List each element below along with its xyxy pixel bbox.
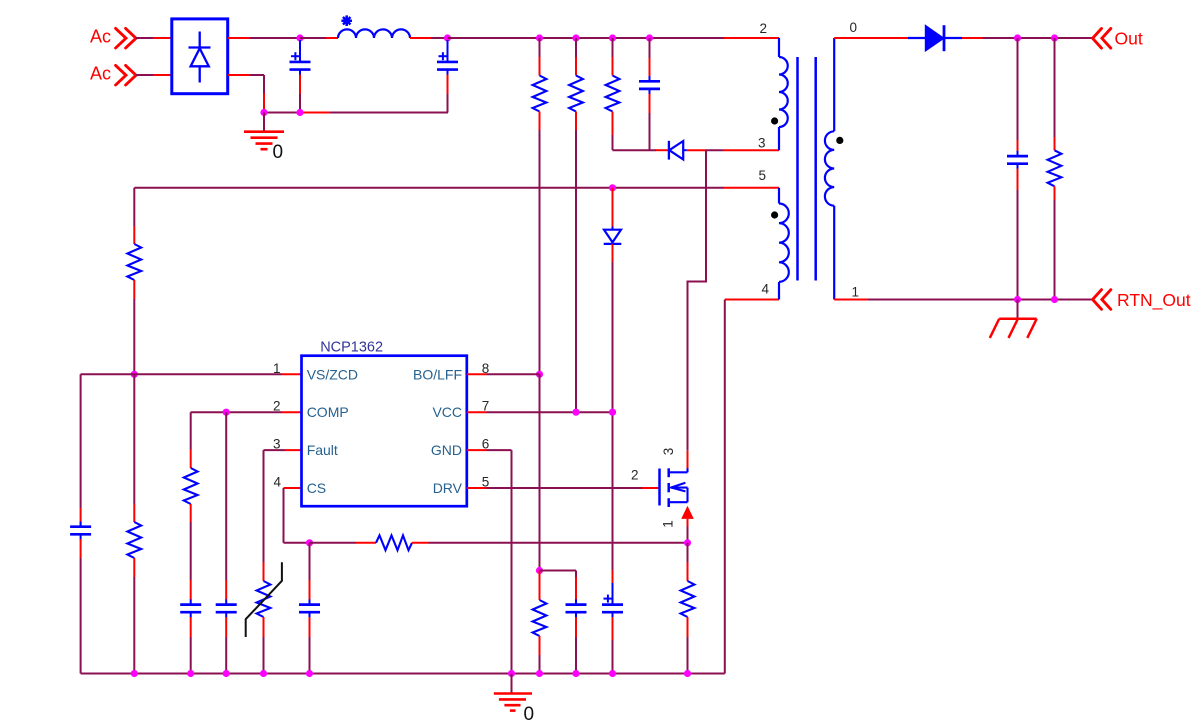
diode D4 (output rectifier)	[908, 25, 962, 51]
svg-text:VS/ZCD: VS/ZCD	[307, 366, 358, 382]
port Ac (top)	[90, 27, 136, 49]
wire COMP corner down to R6	[190, 412, 192, 468]
resistor R10 (output load)	[1048, 150, 1062, 186]
wire node A to inductor	[300, 37, 338, 39]
wire DRV row to gate	[467, 487, 660, 489]
wire R6 down to C5	[190, 504, 192, 600]
junction bottom bus x539	[536, 670, 543, 677]
svg-text:Ac: Ac	[90, 64, 111, 84]
resistor chain x612 upper (R3)	[612, 38, 614, 76]
resistor R9 (source sense)	[681, 581, 695, 617]
wire bridge top output to node A	[228, 37, 300, 39]
wire source junction to R9	[687, 543, 689, 581]
wire x226 down to C6	[225, 412, 227, 600]
wire D2 anode to drain branch and transformer pin 3	[687, 149, 779, 151]
svg-text:Ac: Ac	[90, 27, 111, 47]
wire R10 to RTN rail	[1054, 186, 1056, 299]
wire C4 to bottom bus corner	[80, 539, 82, 673]
T1 primary dot pin3 side	[771, 117, 778, 124]
svg-text:5: 5	[758, 168, 766, 183]
svg-text:2: 2	[273, 399, 281, 414]
Q1 source arrow	[681, 506, 694, 543]
wire R5 to bottom bus	[133, 558, 135, 674]
svg-text:2: 2	[759, 21, 767, 36]
wire transformer pin4 to bottom bus	[725, 300, 779, 674]
junction bottom bus x263	[260, 670, 267, 677]
capacitor C5 (compensation)	[190, 599, 192, 604]
junction top rail x539	[536, 34, 543, 41]
chassis ground (secondary)	[990, 300, 1037, 338]
svg-text:GND: GND	[431, 442, 462, 458]
wire C7 to bottom bus	[575, 617, 577, 673]
svg-text:1: 1	[852, 285, 860, 300]
svg-text:2: 2	[631, 468, 639, 483]
junction RTN rail x1054	[1051, 296, 1058, 303]
wire CS pin jog	[284, 488, 310, 543]
resistor R3	[606, 76, 620, 112]
resistor chain x576 upper (startup R2)	[575, 38, 577, 76]
wire x612 VCC row down to C8	[612, 412, 614, 583]
wire C10 to RTN rail	[1017, 169, 1019, 300]
wire secondary pin0 to output diode	[834, 37, 908, 39]
transformer T1 primary winding pins 2-3	[779, 38, 788, 150]
port Out	[1093, 28, 1143, 48]
wire Fault corner down to thermistor	[263, 450, 265, 581]
ground 0 (input)	[244, 113, 284, 164]
wire BO/LFF row	[467, 373, 540, 375]
port RTN_Out	[1093, 290, 1191, 311]
thermistor RT1	[246, 562, 282, 637]
wire VS/ZCD row	[81, 373, 302, 375]
op-amp/controller U1 NCP1362 box	[302, 340, 467, 507]
junction bottom bus x134	[131, 670, 138, 677]
junction VCC row x612	[609, 409, 616, 416]
svg-text:BO/LFF: BO/LFF	[413, 366, 462, 382]
junction out rail x1017	[1014, 34, 1021, 41]
junction bottom bus x190	[187, 670, 194, 677]
wire C5 to bottom bus	[190, 617, 192, 673]
T1 aux dot pin5 side	[771, 211, 778, 218]
wire D4 cathode to Out port	[962, 37, 1093, 39]
svg-text:0: 0	[273, 142, 284, 163]
wire CS row to R7	[310, 542, 377, 544]
wire zener bottom to VCC row	[612, 244, 614, 412]
resistor R6 (compensation)	[184, 468, 198, 504]
resistor R1	[533, 76, 547, 112]
resistor R8	[533, 600, 547, 636]
junction bottom bus x612	[609, 670, 616, 677]
bottom bus wire	[81, 673, 725, 675]
transformer T1 secondary winding pins 0-1	[825, 38, 834, 300]
wire C6 to bottom bus	[225, 617, 227, 673]
wire top rail node B to transformer pin 2	[448, 37, 780, 39]
branch wire x539 junction to C7	[540, 571, 577, 600]
capacitor C3	[649, 76, 651, 81]
resistor R5 (lower divider)	[127, 522, 141, 558]
junction source / CS row	[684, 539, 691, 546]
wire bridge bottom output	[228, 75, 264, 113]
capacitor C10 (output)	[1017, 151, 1019, 156]
svg-text:4: 4	[273, 475, 281, 490]
wire x134 down to R5	[133, 374, 135, 522]
junction VCC row x576	[572, 409, 579, 416]
node B junction	[444, 34, 451, 41]
svg-text:0: 0	[850, 20, 858, 35]
svg-text:3: 3	[758, 136, 766, 151]
wire R2 bottom down to VCC row	[575, 112, 577, 413]
wire R1 bottom down to BO row	[539, 112, 541, 375]
wire zener top lead	[612, 188, 614, 227]
bus2 wire (VS sense row, to transformer pin 5)	[134, 187, 779, 189]
wire GND down to bottom bus	[511, 450, 513, 673]
svg-text:3: 3	[661, 448, 676, 456]
wire VCC row	[467, 411, 613, 413]
svg-text:1: 1	[273, 361, 281, 376]
junction bottom bus x576	[572, 670, 579, 677]
ground 0 (primary bottom)	[494, 674, 534, 726]
capacitor C8 (VCC bulk, polarized)	[602, 583, 623, 674]
wire Fault row	[264, 449, 302, 451]
bridge rectifier D1	[172, 19, 228, 94]
svg-text:RTN_Out: RTN_Out	[1117, 290, 1191, 311]
junction bus2 zener	[609, 184, 616, 191]
capacitor C9 (CS filter)	[309, 599, 311, 604]
wire R8 to bottom bus	[539, 636, 541, 674]
capacitor C6 (compensation)	[225, 599, 227, 604]
svg-text:1: 1	[661, 520, 676, 528]
transistor Q1 (N-MOSFET)	[660, 468, 688, 508]
wire Ac top to bridge	[136, 37, 172, 39]
svg-text:Out: Out	[1115, 28, 1143, 48]
junction R1 chain / BO-LFF row	[536, 371, 543, 378]
wire R7 to MOSFET source junction	[412, 542, 688, 544]
diode D2 (aux rectifier, pointing left)	[669, 141, 687, 160]
inductor L1	[338, 29, 410, 38]
capacitor C7 (VCC)	[575, 599, 577, 604]
junction bottom bus x687	[684, 670, 691, 677]
port Ac (bottom)	[90, 64, 136, 86]
wire x1017 down to C10	[1017, 38, 1019, 151]
T1 secondary dot pin0 side	[836, 137, 843, 144]
junction top rail x612	[609, 34, 616, 41]
node A junction	[296, 34, 303, 41]
wire Ac bottom to bridge	[136, 74, 172, 76]
resistor R7 (current sense filter)	[376, 535, 412, 550]
transformer T1 aux winding pins 5-4	[779, 188, 789, 300]
resistor R4 (upper divider)	[127, 244, 141, 280]
svg-text:CS: CS	[307, 480, 326, 496]
svg-text:0: 0	[524, 704, 535, 725]
wire R4 to VS row junction	[133, 280, 135, 374]
inductor L1 nonlinear-core star marker	[341, 15, 352, 26]
junction CS row x309	[306, 539, 313, 546]
T1 core bars	[798, 57, 816, 281]
junction ground node input	[260, 109, 267, 116]
junction bottom bus x511	[508, 670, 515, 677]
wire left rail x80 down	[80, 374, 82, 526]
wire inductor to node B	[410, 37, 448, 39]
diode D3 (pointing down)	[604, 227, 622, 244]
junction C1 bottom	[296, 109, 303, 116]
wire x539 BO row to lower junction	[539, 374, 541, 570]
junction top rail x649	[646, 34, 653, 41]
wire C9 to bottom bus	[309, 617, 311, 673]
wire bus2 left corner down x134	[133, 188, 135, 244]
junction top rail x576	[572, 34, 579, 41]
svg-text:4: 4	[761, 282, 769, 297]
junction COMP row x226	[223, 409, 230, 416]
capacitor C1 (input bulk, polarized)	[290, 40, 311, 113]
wire thermistor to bottom bus	[263, 617, 265, 674]
wire drain branch from aux diode row	[688, 150, 707, 468]
junction x539 lower	[536, 567, 543, 574]
wire COMP row	[191, 411, 302, 413]
svg-text:3: 3	[273, 437, 281, 452]
wire C3 bottom to aux-diode row	[649, 94, 651, 150]
capacitor C2 (after L1, polarized)	[437, 40, 458, 113]
svg-text:NCP1362: NCP1362	[320, 340, 383, 356]
wire R9 to bottom bus	[687, 617, 689, 674]
svg-text:DRV: DRV	[433, 480, 463, 496]
junction VS row x134	[131, 371, 138, 378]
wire x309 down to C9	[309, 543, 311, 600]
svg-text:VCC: VCC	[432, 404, 462, 420]
bottom input rail	[264, 112, 448, 114]
wire x1054 down to R10	[1054, 38, 1056, 150]
resistor chain x539 upper (startup R1)	[539, 38, 541, 76]
wire GND row	[467, 449, 512, 451]
svg-text:Fault: Fault	[307, 442, 338, 458]
capacitor chain x649 (C3)	[649, 38, 651, 76]
wire x539 junction to R8	[539, 571, 541, 601]
aux diode row wire	[613, 149, 669, 151]
capacitor C4 (feedback)	[80, 522, 82, 527]
junction bottom bus x309	[306, 670, 313, 677]
resistor R2	[569, 76, 583, 112]
wire R3 bottom to aux-diode row	[612, 112, 614, 151]
junction RTN rail x1017	[1014, 296, 1021, 303]
junction out rail x1054	[1051, 34, 1058, 41]
junction bottom bus x226	[223, 670, 230, 677]
wire secondary pin1 to RTN_Out port	[834, 299, 1092, 301]
svg-text:COMP: COMP	[307, 404, 349, 420]
